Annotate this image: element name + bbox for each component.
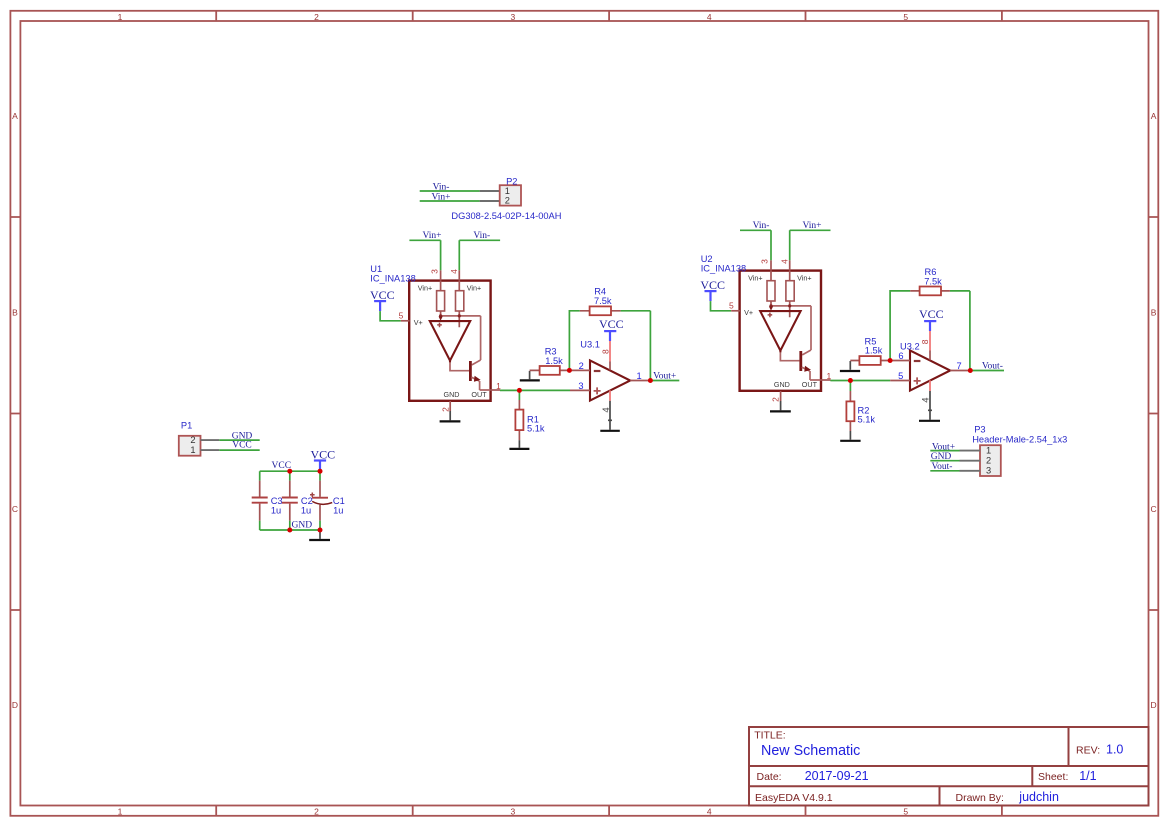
svg-text:3: 3 <box>578 381 583 391</box>
svg-text:5: 5 <box>903 806 908 816</box>
svg-text:4: 4 <box>601 407 612 412</box>
svg-text:1.5k: 1.5k <box>865 346 883 356</box>
svg-text:C: C <box>1151 504 1157 514</box>
svg-text:Vin-: Vin- <box>433 182 450 192</box>
svg-text:P3: P3 <box>974 425 985 435</box>
svg-text:5: 5 <box>399 311 404 321</box>
svg-text:2: 2 <box>314 12 319 22</box>
svg-text:IC_INA138: IC_INA138 <box>370 273 415 283</box>
svg-text:VCC: VCC <box>310 447 335 461</box>
svg-text:GND: GND <box>444 390 460 399</box>
svg-text:D: D <box>12 700 18 710</box>
svg-text:judchin: judchin <box>1018 790 1059 804</box>
svg-text:2017-09-21: 2017-09-21 <box>805 769 869 783</box>
svg-text:2: 2 <box>440 407 450 412</box>
svg-text:8: 8 <box>920 339 930 344</box>
svg-text:Drawn By:: Drawn By: <box>956 792 1004 804</box>
svg-text:1u: 1u <box>271 506 281 516</box>
svg-text:EasyEDA V4.9.1: EasyEDA V4.9.1 <box>755 792 833 804</box>
svg-text:7.5k: 7.5k <box>924 276 942 286</box>
svg-text:D: D <box>1151 700 1157 710</box>
svg-text:B: B <box>12 307 18 317</box>
svg-text:P1: P1 <box>181 421 192 431</box>
svg-text:A: A <box>1151 111 1157 121</box>
svg-text:V+: V+ <box>414 318 423 327</box>
svg-text:DG308-2.54-02P-14-00AH: DG308-2.54-02P-14-00AH <box>451 211 561 221</box>
svg-text:Vin-: Vin- <box>753 221 770 231</box>
svg-text:7: 7 <box>957 361 962 371</box>
svg-text:Vin+: Vin+ <box>467 283 481 292</box>
svg-text:Vin-: Vin- <box>473 231 490 241</box>
svg-text:5: 5 <box>898 371 903 381</box>
svg-text:4: 4 <box>921 397 932 402</box>
svg-text:1: 1 <box>118 12 123 22</box>
svg-text:A: A <box>12 111 18 121</box>
svg-text:6: 6 <box>898 351 903 361</box>
svg-text:3: 3 <box>511 806 516 816</box>
svg-text:2: 2 <box>986 456 991 466</box>
svg-text:B: B <box>1151 307 1157 317</box>
svg-text:3: 3 <box>511 12 516 22</box>
svg-text:4: 4 <box>707 12 712 22</box>
svg-text:GND: GND <box>931 452 952 462</box>
svg-text:1.5k: 1.5k <box>545 356 563 366</box>
svg-text:7.5k: 7.5k <box>594 296 612 306</box>
svg-text:1u: 1u <box>301 506 311 516</box>
svg-text:1: 1 <box>637 371 642 381</box>
svg-text:4: 4 <box>449 269 459 274</box>
svg-text:VCC: VCC <box>370 288 395 302</box>
svg-text:VCC: VCC <box>919 307 944 321</box>
svg-text:8: 8 <box>601 349 611 354</box>
svg-text:Vin+: Vin+ <box>431 193 450 203</box>
svg-text:New Schematic: New Schematic <box>761 743 860 759</box>
svg-text:1: 1 <box>986 445 991 455</box>
svg-text:GND: GND <box>292 520 313 530</box>
svg-text:5.1k: 5.1k <box>527 424 545 434</box>
svg-text:1u: 1u <box>333 506 343 516</box>
svg-text:1/1: 1/1 <box>1079 769 1096 783</box>
svg-text:Vin+: Vin+ <box>418 283 432 292</box>
svg-text:IC_INA138: IC_INA138 <box>701 263 746 273</box>
svg-text:1: 1 <box>118 806 123 816</box>
svg-text:5: 5 <box>903 12 908 22</box>
svg-text:Header-Male-2.54_1x3: Header-Male-2.54_1x3 <box>972 435 1067 445</box>
svg-text:Vin+: Vin+ <box>802 221 821 231</box>
svg-text:3: 3 <box>986 466 991 476</box>
svg-text:2: 2 <box>505 196 510 206</box>
svg-text:C: C <box>12 504 18 514</box>
svg-text:Vout-: Vout- <box>932 462 953 472</box>
svg-text:2: 2 <box>190 435 195 445</box>
svg-text:Date:: Date: <box>757 771 782 783</box>
svg-text:Vout+: Vout+ <box>932 442 955 452</box>
svg-text:2: 2 <box>579 361 584 371</box>
svg-text:VCC: VCC <box>599 317 624 331</box>
svg-text:1: 1 <box>505 186 510 196</box>
svg-text:Vout-: Vout- <box>982 362 1003 372</box>
svg-text:2: 2 <box>314 806 319 816</box>
svg-text:1.0: 1.0 <box>1106 742 1123 756</box>
svg-text:4: 4 <box>707 806 712 816</box>
svg-text:OUT: OUT <box>471 390 487 399</box>
svg-text:TITLE:: TITLE: <box>754 730 786 742</box>
svg-text:VCC: VCC <box>232 441 252 451</box>
svg-text:P2: P2 <box>506 176 517 186</box>
svg-text:Vin+: Vin+ <box>422 231 441 241</box>
svg-text:Sheet:: Sheet: <box>1038 771 1068 783</box>
svg-text:3: 3 <box>429 269 439 274</box>
svg-text:1: 1 <box>190 445 195 455</box>
svg-text:5.1k: 5.1k <box>858 415 876 425</box>
svg-text:REV:: REV: <box>1076 744 1100 756</box>
svg-text:U3.1: U3.1 <box>580 339 600 349</box>
svg-text:Vout+: Vout+ <box>653 372 676 382</box>
